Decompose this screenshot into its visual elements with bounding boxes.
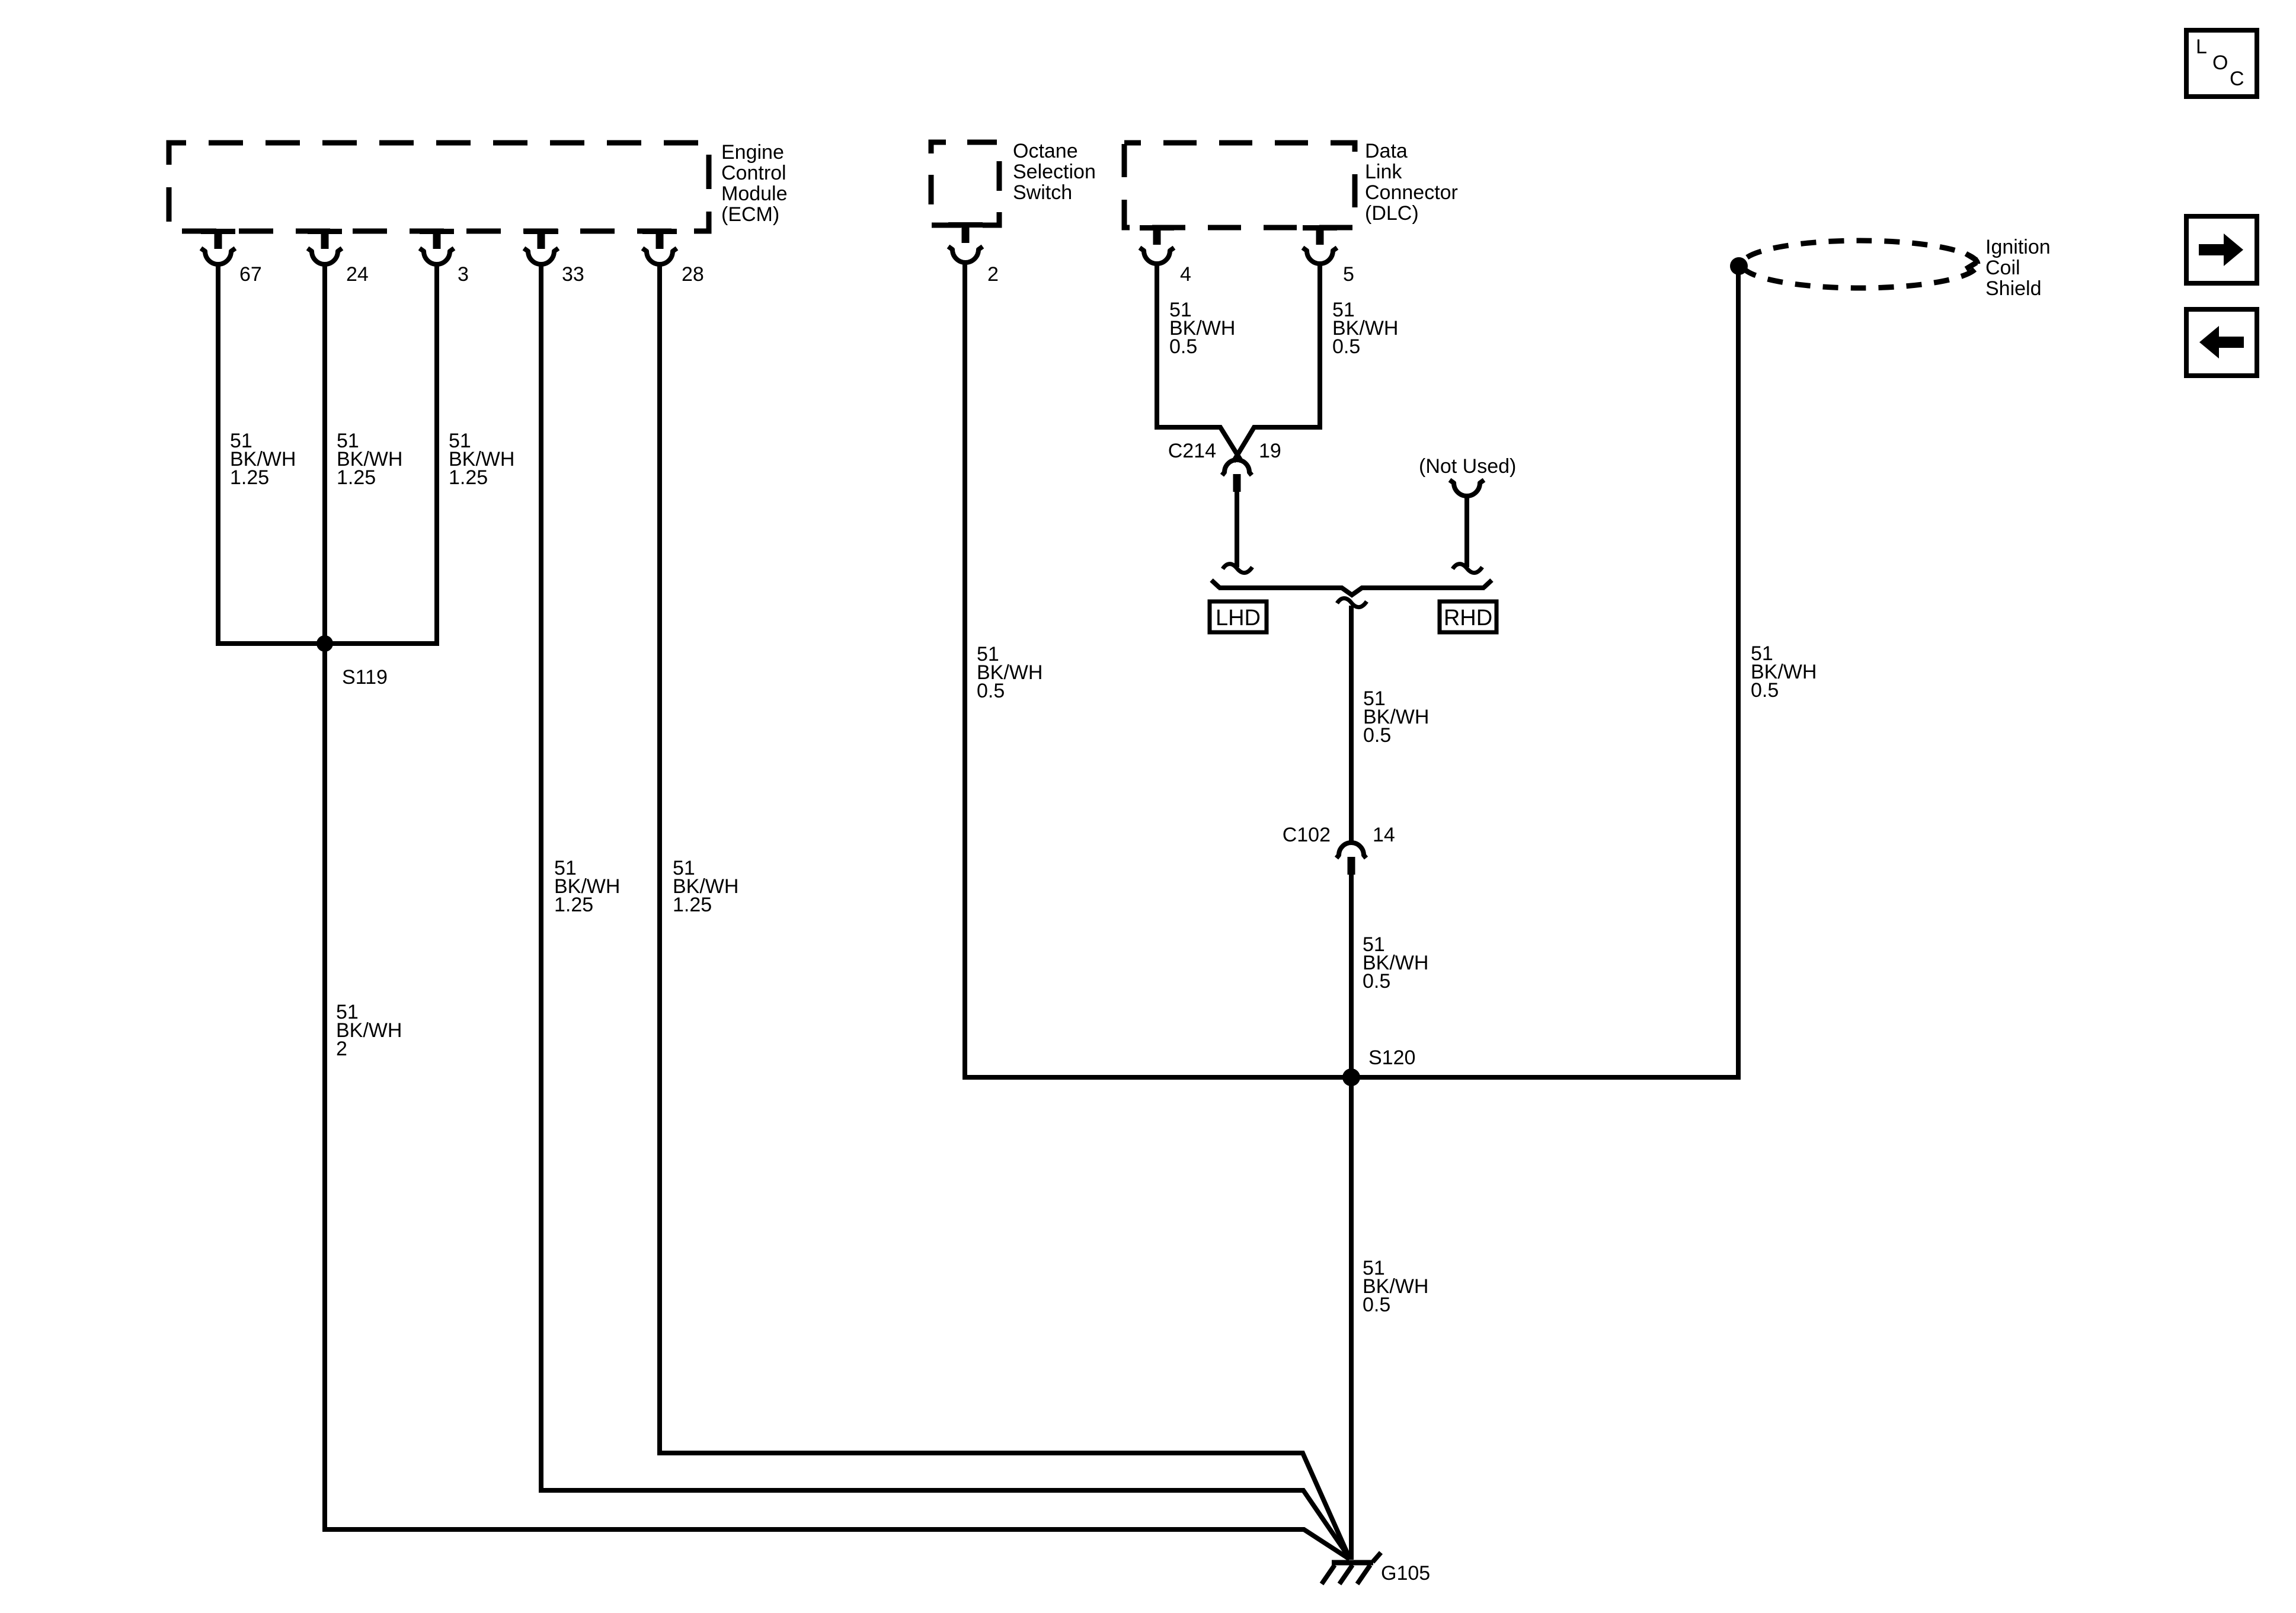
DLC pin 4 xyxy=(1140,227,1191,286)
ignition coil shield label xyxy=(1985,236,2051,300)
ECM dashed box xyxy=(169,143,709,231)
wire ECM pin 28 to G105 xyxy=(660,263,1349,1557)
svg-text:4: 4 xyxy=(1180,263,1191,286)
wire label 51 BK/WH 0.5 (DLC pin 4) xyxy=(1169,299,1235,358)
wire DLC pin 5 diagonal to C214 xyxy=(1233,262,1320,462)
svg-text:0.5: 0.5 xyxy=(977,680,1005,702)
svg-text:Octane: Octane xyxy=(1013,140,1078,162)
svg-text:Coil: Coil xyxy=(1985,257,2020,279)
wire label 51 BK/WH 1.25 (pin 24) xyxy=(337,430,402,489)
svg-text:Shield: Shield xyxy=(1985,277,2042,300)
solid dash segments above connector pins xyxy=(201,222,1337,234)
svg-text:1.25: 1.25 xyxy=(554,894,593,916)
svg-text:2: 2 xyxy=(987,263,999,286)
connector C214 pin 19 xyxy=(1168,440,1281,492)
wire (Not Used) down to option bracket xyxy=(1464,497,1469,567)
svg-text:0.5: 0.5 xyxy=(1363,970,1390,993)
DLC label xyxy=(1365,140,1458,225)
wire OSS pin 2 down, S120 bar, up to ignition coil shield xyxy=(965,261,1738,1077)
svg-text:1.25: 1.25 xyxy=(449,466,488,489)
svg-text:0.5: 0.5 xyxy=(1332,335,1360,358)
wire label 51 BK/WH 0.5 (bracket to C102) xyxy=(1363,687,1429,747)
svg-text:C: C xyxy=(2230,68,2244,90)
left arrow legend box xyxy=(2186,309,2257,376)
wire C102 to S120 to G105 xyxy=(1349,873,1354,1560)
hook at C214 wire end xyxy=(1223,564,1252,573)
option bracket LHD/RHD xyxy=(1211,580,1492,595)
svg-text:0.5: 0.5 xyxy=(1363,724,1391,747)
hook below bracket notch xyxy=(1337,599,1367,607)
svg-text:Selection: Selection xyxy=(1013,161,1096,183)
OSS pin 2 xyxy=(948,225,999,286)
LHD option box xyxy=(1210,601,1267,632)
wire label 51 BK/WH 2 (S119 to G105) xyxy=(336,1001,402,1060)
wire C214 down to option bracket xyxy=(1235,491,1239,567)
svg-text:5: 5 xyxy=(1343,263,1354,286)
svg-text:C102: C102 xyxy=(1283,824,1331,846)
ground G105 xyxy=(1322,1553,1430,1585)
svg-text:RHD: RHD xyxy=(1444,606,1492,631)
wire label 51 BK/WH 0.5 (OSS) xyxy=(977,643,1043,702)
ECM label text xyxy=(721,141,788,226)
splice S120 xyxy=(1342,1046,1415,1086)
svg-text:LHD: LHD xyxy=(1216,606,1261,631)
wire label 51 BK/WH 0.5 (C102 to S120) xyxy=(1363,933,1428,993)
hook at (Not Used) wire end xyxy=(1453,564,1482,573)
ECM pin 24 xyxy=(308,231,369,286)
wire bracket to C102 xyxy=(1349,606,1354,841)
wire ECM pin 33 to G105 xyxy=(541,263,1350,1558)
DLC pin 5 xyxy=(1303,227,1354,286)
svg-text:24: 24 xyxy=(346,263,369,286)
svg-text:G105: G105 xyxy=(1381,1562,1430,1585)
svg-text:Link: Link xyxy=(1365,161,1402,183)
svg-text:0.5: 0.5 xyxy=(1169,335,1197,358)
ECM pin 3 xyxy=(420,231,469,286)
svg-text:Connector: Connector xyxy=(1365,181,1458,204)
svg-text:(Not Used): (Not Used) xyxy=(1419,455,1516,478)
Data Link Connector dashed box xyxy=(1124,143,1355,228)
wire label 51 BK/WH 0.5 (S120 to G105) xyxy=(1363,1257,1428,1316)
RHD option box xyxy=(1440,601,1496,632)
wire ECM pin 67 to S119, S119 bar, up to pin 3 xyxy=(218,263,437,644)
junction dot at ignition coil shield xyxy=(1730,257,1748,275)
ECM pin 67 xyxy=(201,231,262,286)
Octane Selection Switch label xyxy=(1013,140,1096,204)
svg-text:28: 28 xyxy=(682,263,704,286)
svg-text:Engine: Engine xyxy=(721,141,784,164)
right arrow legend box xyxy=(2186,216,2257,283)
wire DLC pin 4 diagonal to C214 xyxy=(1157,262,1242,462)
svg-text:1.25: 1.25 xyxy=(230,466,269,489)
svg-text:Module: Module xyxy=(721,183,788,205)
svg-text:19: 19 xyxy=(1259,440,1281,462)
wire label 51 BK/WH 0.5 (DLC pin 5) xyxy=(1332,299,1398,358)
wire label 51 BK/WH 1.25 (pin 28) xyxy=(673,857,738,916)
(Not Used) terminal xyxy=(1419,455,1516,496)
svg-text:0.5: 0.5 xyxy=(1363,1294,1390,1316)
svg-text:O: O xyxy=(2212,52,2228,74)
svg-text:0.5: 0.5 xyxy=(1751,679,1779,702)
svg-text:L: L xyxy=(2196,36,2207,58)
svg-text:67: 67 xyxy=(239,263,262,286)
wire label 51 BK/WH 1.25 (pin 67) xyxy=(230,430,296,489)
ECM pin 33 xyxy=(524,231,584,286)
ignition coil shield dashed ellipse xyxy=(1742,241,1978,288)
svg-text:C214: C214 xyxy=(1168,440,1216,462)
svg-text:S120: S120 xyxy=(1368,1046,1415,1069)
Octane Selection Switch dashed box xyxy=(931,142,999,225)
svg-text:1.25: 1.25 xyxy=(673,894,712,916)
connector C102 pin 14 xyxy=(1283,824,1395,875)
svg-text:Control: Control xyxy=(721,162,786,184)
svg-text:(DLC): (DLC) xyxy=(1365,202,1419,225)
wire label 51 BK/WH 1.25 (pin 33) xyxy=(554,857,620,916)
svg-text:3: 3 xyxy=(458,263,469,286)
LOC legend box xyxy=(2186,30,2257,97)
svg-text:2: 2 xyxy=(336,1038,347,1060)
svg-text:(ECM): (ECM) xyxy=(721,203,779,226)
svg-text:Ignition: Ignition xyxy=(1985,236,2051,258)
svg-text:33: 33 xyxy=(562,263,584,286)
svg-text:1.25: 1.25 xyxy=(337,466,376,489)
svg-text:14: 14 xyxy=(1373,824,1395,846)
svg-text:S119: S119 xyxy=(342,666,388,689)
svg-text:Data: Data xyxy=(1365,140,1408,162)
wire ECM pin 24 through S119 down, across bottom, into G105 xyxy=(325,263,1350,1559)
ECM pin 28 xyxy=(642,231,704,286)
splice S119 xyxy=(316,635,388,689)
wire label 51 BK/WH 0.5 (ignition coil) xyxy=(1751,642,1817,702)
svg-text:Switch: Switch xyxy=(1013,181,1072,204)
wire label 51 BK/WH 1.25 (pin 3) xyxy=(449,430,514,489)
